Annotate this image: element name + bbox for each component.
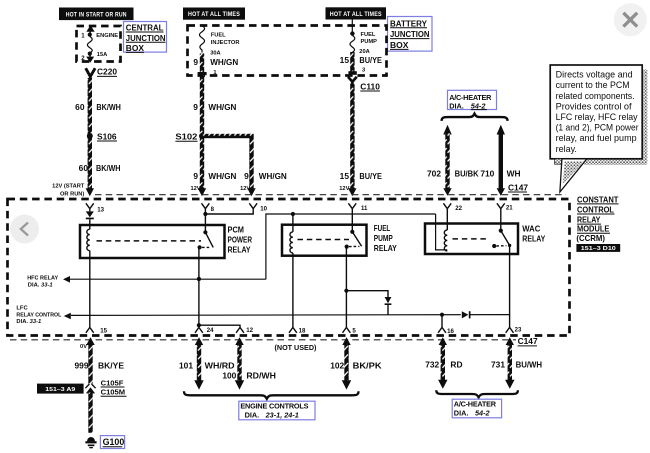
svg-text:CONTROL: CONTROL <box>577 205 614 214</box>
svg-text:54-2: 54-2 <box>471 101 486 110</box>
PCM switch output wire <box>198 247 200 327</box>
svg-text:23-1, 24-1: 23-1, 24-1 <box>265 410 299 419</box>
branch to diode D2 <box>346 291 388 297</box>
svg-text:FUEL: FUEL <box>211 33 226 39</box>
svg-text:54-2: 54-2 <box>475 409 490 418</box>
brace ENGINE CONTROLS <box>184 391 359 399</box>
svg-text:0V: 0V <box>80 344 87 350</box>
svg-text:151–3 A9: 151–3 A9 <box>45 387 76 393</box>
wire 101 WH/RD <box>179 337 235 389</box>
PCM relay switch <box>198 230 214 249</box>
fuse F2 FUEL INJECTOR 30A <box>193 26 239 76</box>
connector C110 <box>348 77 380 92</box>
battery junction box label <box>388 17 433 52</box>
wire 102 BK/PK <box>330 337 381 389</box>
svg-text:731: 731 <box>491 359 505 369</box>
svg-text:JUNCTION: JUNCTION <box>390 29 430 39</box>
fuel relay switch <box>345 230 362 249</box>
wire 15 BU/YE long <box>350 84 354 189</box>
node D (diode branch) <box>344 289 348 293</box>
svg-text:22: 22 <box>455 205 462 212</box>
svg-text:30A: 30A <box>210 50 220 56</box>
svg-text:RELAY CONTROL: RELAY CONTROL <box>16 313 61 319</box>
pin 13 fork <box>86 203 105 213</box>
PCM relay coil <box>87 229 90 250</box>
svg-text:18: 18 <box>299 328 306 335</box>
svg-text:WAC: WAC <box>522 225 540 234</box>
ENGINE CONTROLS label <box>239 401 315 420</box>
ref box 151-3 D10 <box>576 244 620 252</box>
pin 11 fork <box>348 203 368 232</box>
pin 18 fork <box>289 327 297 332</box>
svg-text:DIA. 33-1: DIA. 33-1 <box>28 282 53 288</box>
svg-text:current to the PCM: current to the PCM <box>556 80 630 90</box>
wire 9 WH/GN (from F2 down) <box>200 76 204 189</box>
note bubble shadow <box>642 70 647 164</box>
node pin8 junction + rail to pin10 <box>203 209 253 233</box>
WAC relay linkage (dashed) <box>453 238 490 240</box>
wire jog to pin 12 <box>199 325 240 327</box>
svg-text:C110: C110 <box>360 81 380 91</box>
svg-text:relay.: relay. <box>556 144 577 154</box>
svg-text:C105M: C105M <box>101 388 125 397</box>
wire to pin 16 <box>441 315 443 328</box>
svg-text:RD: RD <box>450 359 462 369</box>
svg-text:710: 710 <box>480 169 494 179</box>
svg-text:HOT AT ALL TIMES: HOT AT ALL TIMES <box>330 11 382 18</box>
WAC coil <box>444 230 447 251</box>
WAC coil bottom feed from rail <box>436 214 448 250</box>
pin 10 fork <box>249 203 267 212</box>
fuse box F1 (dashed) <box>77 26 121 62</box>
wire 732 RD <box>425 337 462 389</box>
svg-text:13: 13 <box>97 207 104 214</box>
wire 60 BK/WH upper <box>88 78 92 189</box>
svg-text:12: 12 <box>246 327 253 334</box>
HFC feed riser <box>266 214 436 279</box>
svg-text:102: 102 <box>330 361 344 371</box>
fuse F3 FUEL PUMP 20A <box>340 31 383 74</box>
note bubble <box>550 65 642 192</box>
svg-text:RELAY: RELAY <box>228 246 251 255</box>
svg-text:15A: 15A <box>97 52 107 58</box>
brace A/C-HEATER <box>436 390 518 397</box>
pin 8 fork <box>202 203 215 213</box>
svg-text:BOX: BOX <box>390 40 409 50</box>
svg-text:9: 9 <box>193 171 198 181</box>
svg-text:999: 999 <box>75 361 89 371</box>
wire banner3 to box <box>351 19 353 32</box>
A/C-HEATER label (bottom) <box>452 399 501 418</box>
svg-text:BU/WH: BU/WH <box>516 359 543 369</box>
wire 100 RD/WH <box>222 337 276 389</box>
svg-text:DIA.: DIA. <box>245 410 260 419</box>
svg-text:Provides control of: Provides control of <box>556 101 632 111</box>
svg-text:60: 60 <box>75 102 85 112</box>
svg-text:related components.: related components. <box>556 91 635 101</box>
central junction box label <box>124 22 167 54</box>
svg-text:WH/GN: WH/GN <box>208 102 236 112</box>
svg-text:DIA. 33-1: DIA. 33-1 <box>16 319 41 325</box>
fuel switch output wire to pin 5 <box>345 247 347 328</box>
svg-text:15: 15 <box>340 55 350 65</box>
fuel relay coil <box>290 232 293 253</box>
svg-text:BU/YE: BU/YE <box>359 55 382 65</box>
svg-text:702: 702 <box>427 169 441 179</box>
svg-text:1: 1 <box>213 70 216 76</box>
svg-text:WH/RD: WH/RD <box>205 361 235 371</box>
banner HOT IN START OR RUN <box>59 8 134 21</box>
svg-text:WH/GN: WH/GN <box>208 171 236 181</box>
pin 24 fork <box>195 327 203 332</box>
svg-text:DIA.: DIA. <box>454 409 469 418</box>
svg-text:HFC RELAY: HFC RELAY <box>27 276 58 282</box>
HFC RELAY callout <box>27 276 266 289</box>
connector C105F/C105M <box>85 378 126 396</box>
A/C-HEATER DIA.54-2 label (top) <box>448 90 497 110</box>
svg-text:9: 9 <box>193 57 198 67</box>
svg-text:RELAY: RELAY <box>374 244 397 253</box>
svg-text:LFC: LFC <box>16 305 28 311</box>
ref box 151-3 A9 <box>37 384 84 394</box>
svg-text:ENGINE: ENGINE <box>96 33 118 39</box>
pin 12 fork <box>236 327 244 332</box>
svg-text:FUEL: FUEL <box>361 32 376 38</box>
relay U3 WAC RELAY <box>425 224 546 255</box>
fuse F1 ENGINE 15A <box>81 25 118 63</box>
svg-text:10: 10 <box>260 205 267 212</box>
svg-text:S106: S106 <box>97 131 117 141</box>
back button (<) <box>10 215 39 244</box>
diode D2 <box>385 297 392 315</box>
svg-text:(1 and 2), PCM power: (1 and 2), PCM power <box>556 123 639 133</box>
svg-text:C147: C147 <box>518 336 538 346</box>
svg-text:BOX: BOX <box>126 43 144 53</box>
connector face line (bottom) <box>10 339 516 341</box>
svg-text:151–3 D10: 151–3 D10 <box>581 246 616 252</box>
svg-text:WH/GN: WH/GN <box>259 171 287 181</box>
node E (pin 16 junction) <box>440 313 444 317</box>
PCM relay linkage (dashed) <box>97 240 202 242</box>
svg-text:FUEL: FUEL <box>374 224 391 233</box>
svg-text:C220: C220 <box>97 67 117 77</box>
pin 22 fork <box>443 203 462 230</box>
svg-text:16: 16 <box>447 328 454 335</box>
svg-text:relay, and fuel pump: relay, and fuel pump <box>556 133 637 143</box>
svg-text:24: 24 <box>207 327 214 334</box>
banner HOT AT ALL TIMES (right) <box>326 7 387 19</box>
svg-text:PCM: PCM <box>228 226 245 235</box>
svg-text:RELAY: RELAY <box>577 216 601 225</box>
svg-text:9: 9 <box>193 102 198 112</box>
svg-text:ENGINE CONTROLS: ENGINE CONTROLS <box>240 401 308 410</box>
fuel coil wire to pin 18 <box>292 253 294 328</box>
PCM coil wire to pin 15 <box>89 251 91 328</box>
pin 23 fork <box>506 327 514 332</box>
svg-text:11: 11 <box>361 205 368 212</box>
svg-text:15: 15 <box>100 328 107 335</box>
fuel relay linkage (dashed) <box>298 239 350 241</box>
WAC output wire to pin 23 <box>509 245 511 327</box>
svg-text:BU/YE: BU/YE <box>359 171 382 181</box>
splice S106 <box>87 133 93 139</box>
fuel relay coil feed from rail <box>292 214 294 232</box>
wire to ground <box>88 393 92 433</box>
relay U2 FUEL PUMP RELAY <box>282 224 397 256</box>
svg-text:CONSTANT: CONSTANT <box>577 195 618 204</box>
svg-text:JUNCTION: JUNCTION <box>126 33 166 43</box>
svg-text:PUMP: PUMP <box>361 39 378 45</box>
svg-text:POWER: POWER <box>228 236 253 245</box>
wire 710 WH <box>480 125 520 196</box>
svg-text:LFC relay, HFC relay: LFC relay, HFC relay <box>556 112 638 122</box>
fuse panel dashed box (shared) <box>188 26 387 76</box>
pin 21 fork <box>497 203 513 230</box>
svg-text:12V: 12V <box>190 186 200 192</box>
connector face line (top) <box>95 194 566 196</box>
S102 branch wire to pin 10 <box>202 134 252 138</box>
ground G100 symbol <box>85 437 96 448</box>
splice S102 <box>199 133 205 139</box>
svg-text:G100: G100 <box>103 437 125 447</box>
svg-text:CENTRAL: CENTRAL <box>126 23 164 33</box>
svg-text:PUMP: PUMP <box>374 234 393 243</box>
svg-text:12V (START: 12V (START <box>52 183 85 189</box>
svg-text:12V: 12V <box>240 186 250 192</box>
svg-text:WH: WH <box>507 169 521 179</box>
pin 5 fork <box>343 327 351 332</box>
svg-text:15: 15 <box>340 171 350 181</box>
svg-text:WH/GN: WH/GN <box>210 57 238 67</box>
svg-text:HOT IN START OR RUN: HOT IN START OR RUN <box>66 11 127 18</box>
svg-text:BK/YE: BK/YE <box>98 361 124 371</box>
node B (pin24/12 junction) <box>197 323 201 327</box>
svg-text:60: 60 <box>79 163 89 173</box>
svg-text:23: 23 <box>515 327 522 334</box>
G100 label <box>100 436 124 449</box>
svg-text:(NOT USED): (NOT USED) <box>275 343 318 352</box>
svg-text:BATTERY: BATTERY <box>390 18 427 28</box>
svg-text:MODULE: MODULE <box>577 225 610 234</box>
svg-text:A/C-HEATER: A/C-HEATER <box>454 400 497 409</box>
connector C220 <box>86 67 118 79</box>
svg-text:(CCRM): (CCRM) <box>576 234 605 243</box>
brace over 702/710 <box>442 114 508 121</box>
svg-text:C105F: C105F <box>101 378 124 387</box>
svg-text:HOT AT ALL TIMES: HOT AT ALL TIMES <box>188 11 240 18</box>
wire 731 BU/WH <box>491 337 542 389</box>
svg-text:RELAY: RELAY <box>522 235 545 244</box>
svg-text:BK/PK: BK/PK <box>353 361 382 371</box>
svg-text:BU/BK: BU/BK <box>455 169 479 179</box>
pin 16 fork <box>438 327 446 332</box>
diode D1 at pin 13 <box>86 209 94 230</box>
svg-text:9: 9 <box>244 171 249 181</box>
svg-text:OR RUN): OR RUN) <box>60 191 84 197</box>
svg-text:3: 3 <box>362 67 365 73</box>
svg-text:21: 21 <box>506 204 513 211</box>
svg-text:Directs voltage and: Directs voltage and <box>556 70 633 80</box>
diode D3 (inline on LFC line) <box>461 311 471 319</box>
svg-text:RD/WH: RD/WH <box>246 370 276 380</box>
svg-text:INJECTOR: INJECTOR <box>211 40 240 46</box>
WAC relay switch <box>492 229 511 249</box>
banner HOT AT ALL TIMES (left) <box>183 8 245 20</box>
svg-text:732: 732 <box>425 359 439 369</box>
CCRM title <box>576 195 618 243</box>
pin 15 fork <box>86 327 94 332</box>
wire 702 BU/BK <box>427 125 479 196</box>
node C (fuel coil feed) <box>291 212 295 216</box>
svg-text:BK/WH: BK/WH <box>96 163 121 173</box>
svg-text:C147: C147 <box>508 182 528 192</box>
relay U1 PCM POWER RELAY <box>80 225 252 258</box>
CCRM dashed module box <box>8 199 570 336</box>
close button (X) <box>614 3 647 36</box>
LFC RELAY CONTROL callout <box>16 305 509 325</box>
node A (HFC junction) <box>197 277 201 281</box>
svg-text:12V: 12V <box>339 186 349 192</box>
svg-text:S102: S102 <box>175 132 197 142</box>
svg-text:100: 100 <box>222 370 236 380</box>
wire 999 BK/YE <box>75 337 125 383</box>
svg-text:BK/WH: BK/WH <box>96 102 121 112</box>
svg-text:DIA.: DIA. <box>449 101 464 110</box>
svg-text:101: 101 <box>179 361 193 371</box>
